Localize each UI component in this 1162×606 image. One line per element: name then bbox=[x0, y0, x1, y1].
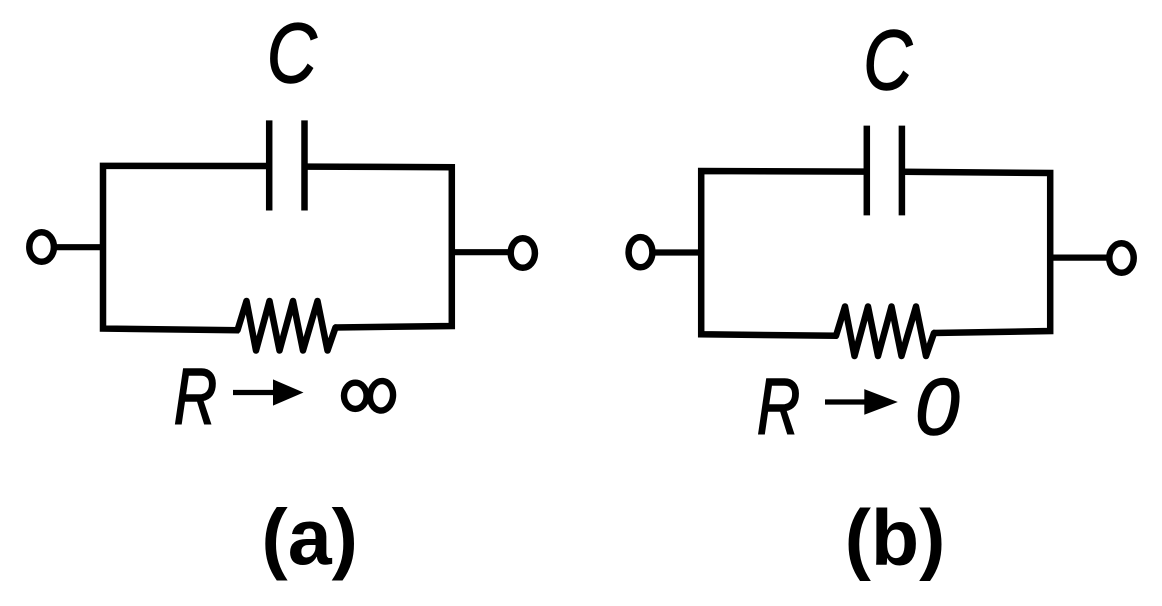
wire : right loop of circuit (b) from resistor end around right side to capacitor right plate bbox=[902, 172, 1050, 333]
wire : left loop of circuit (b) from capacitor left plate around left side to resistor start bbox=[701, 171, 867, 336]
wire : left loop of circuit (a) from capacitor left plate around left side to resistor start bbox=[103, 166, 269, 330]
resistor R2 zigzag bbox=[836, 307, 934, 357]
capacitor C1 right plate bbox=[301, 120, 308, 210]
label infinity symbol (a) bbox=[344, 380, 394, 412]
terminal : left port circle (a) bbox=[29, 232, 54, 262]
svg-text:R: R bbox=[174, 352, 217, 441]
svg-text:R: R bbox=[757, 362, 800, 451]
terminal : right port circle (a) bbox=[511, 238, 535, 268]
svg-text:(b): (b) bbox=[845, 492, 946, 581]
arrow : R to infinity (a) bbox=[233, 390, 281, 395]
resistor R1 zigzag bbox=[238, 301, 336, 351]
wire : right loop of circuit (a) from resistor end around right side to capacitor right plate bbox=[305, 167, 452, 328]
arrow : R to zero (b) bbox=[825, 399, 872, 404]
svg-text:C: C bbox=[863, 14, 913, 108]
wire : left terminal lead (b) bbox=[653, 249, 701, 255]
wire : right terminal lead (b) bbox=[1050, 255, 1108, 261]
svg-text:0: 0 bbox=[915, 362, 960, 451]
capacitor C2 left plate bbox=[864, 126, 871, 216]
svg-text:(a): (a) bbox=[261, 492, 358, 581]
wire : left terminal lead (a) bbox=[54, 244, 103, 250]
capacitor C2 right plate bbox=[899, 126, 906, 216]
capacitor C1 left plate bbox=[266, 120, 273, 210]
wire : right terminal lead (a) bbox=[452, 249, 510, 255]
svg-text:C: C bbox=[267, 7, 317, 101]
terminal : left port circle (b) bbox=[629, 237, 653, 267]
terminal : right port circle (b) bbox=[1109, 243, 1133, 273]
